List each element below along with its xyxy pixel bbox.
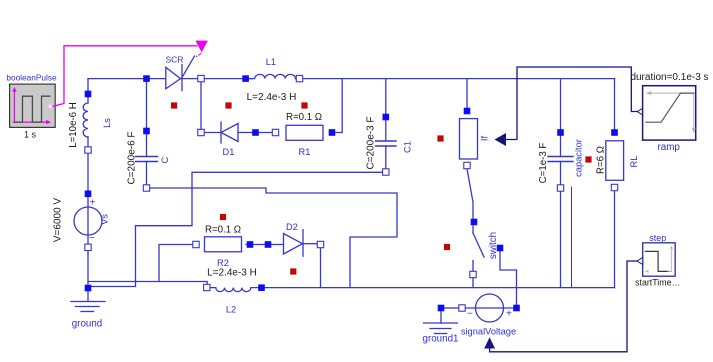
capacitor C: [136, 79, 158, 185]
capacitor (C=1e-3 F): [548, 79, 573, 288]
inductor L1: [249, 74, 296, 78]
svg-text:R2: R2: [217, 258, 229, 268]
connector ramp input: [637, 108, 642, 115]
svg-text:ramp: ramp: [658, 142, 681, 153]
wire If to switch: [467, 169, 473, 219]
svg-text:booleanPulse: booleanPulse: [6, 73, 57, 83]
dashed gate segment: [197, 54, 202, 57]
capacitor C1: [376, 79, 397, 169]
wire ground node to L2 left (upper line): [88, 282, 207, 284]
arrow signalVoltage input: [484, 337, 495, 348]
wire ground node to C1 bottom (lower short line then up): [88, 172, 382, 286]
wire parallel drop right of capacitor: [571, 187, 573, 288]
inductor L2: [210, 288, 258, 292]
wire Vs to ground junction: [87, 251, 89, 292]
diode D1: [205, 122, 273, 143]
wire top rail middle segment: [182, 78, 252, 80]
wire D2 down to rail: [320, 248, 322, 288]
svg-text:+: +: [90, 198, 96, 209]
wire top rail right segment: [296, 78, 615, 80]
resistor R2: [205, 237, 242, 252]
ramp block: [643, 86, 696, 140]
wire bottom rail right: [265, 287, 615, 289]
diode D2: [284, 230, 318, 257]
signal voltage row wires: [445, 307, 459, 309]
resistor RL: [606, 141, 624, 181]
svg-text:C=200e-3 F: C=200e-3 F: [366, 116, 377, 169]
svg-text:R=0.1 Ω: R=0.1 Ω: [286, 112, 322, 123]
wire RL bottom to rail: [614, 191, 616, 288]
svg-text:capacitor: capacitor: [574, 139, 584, 177]
svg-text:L=2.4e-3 H: L=2.4e-3 H: [207, 268, 257, 279]
signalVoltage source: [476, 294, 504, 322]
wire R2 left to rail: [159, 245, 193, 282]
wire left branch down from rail corner: [87, 79, 89, 91]
wire Ls to Vs: [87, 153, 89, 191]
svg-text:−: −: [467, 309, 473, 320]
svg-text:C=1e-3 F: C=1e-3 F: [538, 143, 549, 184]
svg-text:If: If: [480, 136, 490, 142]
svg-text:L=10e-6 H: L=10e-6 H: [68, 102, 79, 148]
svg-text:SCR: SCR: [166, 55, 184, 65]
switch: [473, 226, 484, 288]
wire rail corner down to RL: [614, 79, 616, 129]
svg-text:D2: D2: [286, 222, 298, 232]
heatport squares red: [171, 102, 592, 274]
connector booleanPulse output: [48, 104, 52, 108]
svg-text:−: −: [89, 233, 95, 244]
wire rail to If: [466, 79, 468, 108]
wire top rail left segment: [88, 78, 166, 80]
wire C bottom jog to rail: [150, 188, 397, 288]
arrow SCR gate: [195, 41, 208, 53]
svg-text:1 s: 1 s: [24, 130, 37, 140]
svg-text:+: +: [506, 309, 512, 320]
node squares filled: [85, 75, 618, 311]
svg-text:ground1: ground1: [423, 334, 459, 345]
wire switch n2 to signalVoltage plus: [500, 252, 517, 305]
wire R2 to D2: [246, 244, 284, 246]
step block: [643, 243, 676, 276]
svg-text:duration=0.1e-3 s: duration=0.1e-3 s: [630, 72, 708, 83]
svg-text:C1: C1: [403, 141, 413, 153]
component If (rectangle): [460, 119, 478, 159]
svg-text:L=2.4e-3 H: L=2.4e-3 H: [247, 92, 297, 103]
svg-text:V=6000 V: V=6000 V: [53, 198, 64, 243]
svg-text:Ls: Ls: [102, 118, 112, 128]
svg-text:signalVoltage: signalVoltage: [461, 327, 516, 337]
svg-text:R=0.1 Ω: R=0.1 Ω: [205, 225, 241, 236]
svg-text:Vs: Vs: [100, 214, 110, 225]
svg-text:R=6 Ω: R=6 Ω: [596, 146, 607, 174]
svg-text:L2: L2: [226, 305, 236, 315]
booleanPulse block: [10, 84, 56, 127]
node squares open: [85, 75, 618, 311]
svg-text:startTime…: startTime…: [635, 278, 680, 288]
signal wire step to signalVoltage: [490, 261, 637, 352]
svg-text:RL: RL: [629, 156, 639, 168]
svg-text:L1: L1: [266, 57, 276, 67]
thyristor SCR: [166, 56, 195, 91]
signal wire ramp to If input: [506, 67, 637, 140]
svg-text:ground: ground: [72, 319, 103, 330]
signal wire booleanPulse to SCR gate: [53, 46, 197, 107]
wire R1 right up to rail: [336, 79, 342, 133]
ground: [71, 292, 105, 312]
svg-text:step: step: [649, 233, 666, 243]
svg-text:D1: D1: [223, 147, 235, 157]
resistor R1: [286, 125, 323, 140]
inductor Ls: [83, 97, 88, 147]
wire SCR cathode down to D1: [200, 82, 202, 129]
arrow If input: [495, 133, 507, 146]
voltage source Vs: [74, 197, 102, 245]
svg-text:C: C: [160, 156, 170, 163]
connector step output: [637, 258, 643, 265]
svg-text:C=200e-6 F: C=200e-6 F: [127, 131, 138, 184]
ground1: [424, 312, 458, 334]
svg-text:R1: R1: [299, 147, 311, 157]
